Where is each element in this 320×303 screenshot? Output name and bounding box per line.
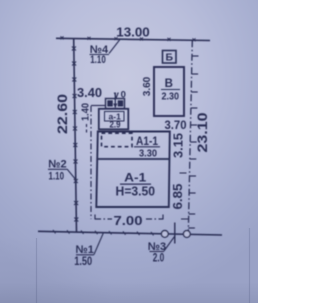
annex label a-1 with box — [105, 111, 125, 129]
building V outline — [154, 67, 184, 116]
boundary top line — [56, 38, 210, 40]
svg-text:1.40: 1.40 — [80, 103, 91, 121]
svg-text:3.30: 3.30 — [139, 148, 157, 160]
svg-text:2.0: 2.0 — [153, 253, 165, 265]
svg-text:13.00: 13.00 — [116, 25, 150, 40]
svg-text:В: В — [165, 78, 173, 90]
svg-text:2.30: 2.30 — [162, 91, 180, 103]
tick marks on right boundary — [188, 56, 198, 228]
porch step right — [118, 100, 124, 106]
svg-text:№2: №2 — [48, 159, 66, 171]
svg-text:№1: №1 — [76, 244, 94, 256]
svg-text:3.60: 3.60 — [142, 76, 153, 96]
entrance arrow — [113, 93, 117, 109]
svg-text:0: 0 — [121, 90, 126, 101]
fence marks on left boundary — [72, 47, 78, 222]
svg-text:Б: Б — [166, 52, 174, 64]
fence label 4 — [90, 39, 121, 66]
svg-text:7.00: 7.00 — [114, 213, 143, 228]
porch step left — [107, 100, 113, 106]
dimension line 7.00 — [95, 215, 163, 220]
tick at bottom of 6.85 — [181, 218, 188, 220]
tick between 3.15 and 6.85 — [180, 172, 187, 174]
fence marks on top boundary — [61, 36, 196, 41]
fence label 2 — [48, 159, 76, 183]
svg-text:3.70: 3.70 — [165, 120, 187, 132]
boundary right dash-dot line — [188, 40, 192, 233]
house label A-1 H=3.50 — [116, 171, 156, 199]
svg-text:22.60: 22.60 — [54, 94, 70, 134]
svg-text:23.10: 23.10 — [194, 112, 210, 152]
svg-text:3.40: 3.40 — [77, 86, 102, 100]
svg-text:1.50: 1.50 — [74, 256, 92, 268]
boundary left line — [74, 39, 77, 233]
svg-text:2.9: 2.9 — [110, 120, 121, 130]
gate circle right — [183, 231, 190, 238]
faint form line left — [36, 238, 38, 303]
room label A1-1 3.30 — [134, 136, 160, 159]
gate post line — [174, 223, 176, 244]
fence marks on bottom boundary — [53, 230, 154, 236]
svg-text:6.85: 6.85 — [171, 183, 185, 209]
porch outline — [106, 99, 125, 109]
svg-text:3.15: 3.15 — [171, 133, 185, 158]
dashed terrace rectangle — [102, 133, 133, 147]
boundary bottom line — [38, 231, 222, 235]
fence label 1 — [74, 233, 103, 268]
building label V 2.30 — [161, 78, 180, 103]
svg-text:1.10: 1.10 — [49, 171, 65, 183]
liter B label box — [163, 51, 177, 64]
gate label 3 — [148, 237, 175, 265]
svg-text:1.10: 1.10 — [90, 54, 106, 66]
svg-text:у: у — [114, 90, 120, 101]
annex a-1 outline — [99, 109, 129, 130]
faint form line right — [249, 228, 251, 303]
house A-1 main outline — [96, 132, 170, 208]
dash-dot offset line left of house — [87, 106, 106, 220]
house internal divider wall — [97, 158, 169, 160]
svg-text:Н=3.50: Н=3.50 — [116, 184, 156, 198]
svg-text:А-1: А-1 — [124, 171, 146, 185]
gate circle left — [161, 231, 168, 238]
porch label y0 — [114, 90, 126, 101]
